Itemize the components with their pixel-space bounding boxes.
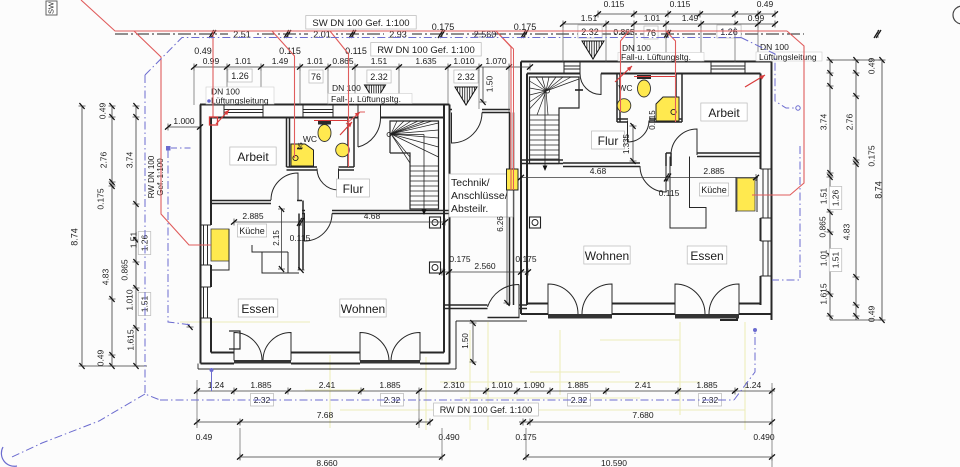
stair right unit winder treads [530,77,580,159]
technik bottom wall [444,304,488,306]
svg-text:4.83: 4.83 [841,223,851,240]
boxed 2.32 dims on bottom line [250,394,273,407]
svg-text:76: 76 [311,72,321,82]
left unit west wall window 2 [201,286,212,288]
red drop to technik shaft (double) [496,31,511,190]
right dim column middle [855,60,857,320]
blue RW left downpipe [145,75,160,400]
yellow highlight: right kitchen radiator [737,178,755,211]
right Flur bottom wall [521,159,563,161]
right unit french door arcs 2 [675,284,705,314]
left dim bottom connector [82,365,147,367]
svg-text:Lüftungsleitung: Lüftungsleitung [759,52,817,62]
svg-text:8.74: 8.74 [873,181,883,199]
right unit SE corner step [720,314,737,320]
svg-text:2.76: 2.76 [844,113,854,130]
red drop to left WC shower [272,31,295,158]
boxed dims right chain [578,25,602,38]
wall WC bottom [287,166,318,168]
room label Arbeit right [701,103,747,121]
svg-text:0.865: 0.865 [613,27,635,37]
svg-text:3.74: 3.74 [124,151,134,168]
svg-text:0.865: 0.865 [332,56,354,66]
stair right unit outline [530,77,580,164]
bottom extension verticals [196,380,198,428]
hatch triangle right [582,41,604,59]
blue corner arc bottom-left [1,447,17,466]
svg-text:76: 76 [646,28,656,38]
svg-text:Fall-u. Lüftungsltg.: Fall-u. Lüftungsltg. [331,94,401,104]
left unit west wall inner segments [210,118,212,226]
svg-text:0.175: 0.175 [449,254,471,264]
svg-text:1.090: 1.090 [523,380,545,390]
blue RW inner left line [168,150,192,325]
svg-text:SW DN 100 Gef. 1:100: SW DN 100 Gef. 1:100 [312,18,409,29]
right unit upper mini chain [598,13,775,15]
red SW pipe down left side [134,31,211,245]
svg-text:2.885: 2.885 [703,166,725,176]
right WC corner shower [656,97,679,121]
dim 6.26 technik rotated [506,190,508,305]
stair right handrail mark [575,89,583,91]
svg-text:2.15: 2.15 [272,230,281,246]
svg-text:7.680: 7.680 [632,410,654,420]
svg-text:1.635: 1.635 [415,56,437,66]
stair right unit direction arrow [546,89,550,93]
SW line double ticks [211,30,216,38]
svg-text:0.49: 0.49 [196,432,213,442]
RW label box left [371,43,481,57]
svg-text:1.50: 1.50 [484,75,494,92]
hatch triangle left 2 [455,87,477,105]
svg-text:0.49: 0.49 [95,349,105,366]
svg-text:0.490: 0.490 [438,432,460,442]
right unit entrance door [580,74,601,95]
right kitchen radiator border [735,177,737,212]
bottom dim row C overall [240,456,442,458]
terrace edge line below left unit [198,368,456,370]
right unit french door arcs 1 [548,284,578,314]
SW sewer line (black dashed) [115,33,804,35]
svg-text:4.68: 4.68 [590,166,607,176]
svg-text:2.885: 2.885 [242,211,264,221]
wall below right Arbeit [666,152,671,154]
dim 2.885 left kitchen [234,221,302,223]
right dim column inner [829,60,831,320]
dim 2.15 left kitchen wall [281,208,283,270]
dim 1.50 terrace step rotated [472,321,474,364]
room label Kueche right [699,183,728,196]
left unit top wall window 2 [302,105,304,118]
svg-text:4.83: 4.83 [100,268,110,285]
left kitchen counter L [262,252,299,273]
left unit exterior wall - top inner segments [211,117,358,119]
right WC wall right (installation) [675,74,677,123]
red drop to left WC fall pipe [330,31,349,167]
svg-text:1.01: 1.01 [235,56,252,66]
reference circle top-right edge [953,6,960,24]
svg-text:1.50: 1.50 [461,333,470,349]
outlet box left unit east wall lower [430,262,441,273]
left unit east wall [443,105,445,353]
right unit east wall window 1 [761,168,772,170]
dim 1.000 top left [168,126,200,128]
svg-text:Absteilr.: Absteilr. [451,203,488,215]
door WC left unit [317,169,339,191]
right unit bottom wall outer segments [521,313,548,315]
bottom dim row B left 7.68 [197,421,430,423]
svg-text:1.51: 1.51 [818,187,828,204]
svg-text:Flur: Flur [343,182,364,196]
svg-text:1.51: 1.51 [371,56,388,66]
svg-text:0.115: 0.115 [604,0,625,9]
dim 2.885 right kitchen [666,177,758,179]
left WC shower tray [291,144,314,166]
svg-text:Essen: Essen [690,249,723,263]
blue RW right corner down [741,38,795,109]
DN100 lueftungsleitung label left [206,87,274,104]
dim 4.68 right flur [521,177,666,179]
svg-text:DN 100: DN 100 [332,83,361,93]
stair left unit direction arrow [387,133,391,137]
svg-text:8.660: 8.660 [316,458,338,467]
right unit west wall [520,62,522,315]
svg-text:1.01: 1.01 [644,13,661,23]
SW line label SW DN 100 [306,16,416,30]
svg-text:WC: WC [303,134,317,144]
svg-text:Fall-u. Lüftungsltg.: Fall-u. Lüftungsltg. [621,52,691,62]
right WC door [628,121,650,143]
right kitchen counter L [670,157,706,229]
svg-text:2.76: 2.76 [98,151,108,168]
svg-text:2.32: 2.32 [370,72,388,82]
svg-text:0.490: 0.490 [753,432,775,442]
svg-text:1.615: 1.615 [818,283,828,305]
room label Technik [449,174,513,217]
svg-text:0.49: 0.49 [757,0,774,9]
right unit east wall inner segments [760,74,762,170]
left dim column middle [111,106,113,366]
svg-text:1.01: 1.01 [307,56,324,66]
svg-text:Lüftungsleitung: Lüftungsleitung [211,96,269,106]
svg-text:Arbeit: Arbeit [237,150,269,164]
wall below Arbeit [211,200,271,202]
right unit top wall inner segments [527,73,580,75]
wall kitchen/living left unit [298,214,300,271]
left unit top dimension chain [194,66,530,68]
left WC toilet bowl [318,125,331,142]
svg-text:3.74: 3.74 [818,113,828,130]
left unit exterior wall - top outer [200,104,450,106]
svg-text:1.010: 1.010 [124,289,134,311]
room label Essen right [687,246,727,264]
svg-text:1.51: 1.51 [128,231,138,248]
svg-text:Küche: Küche [701,185,727,195]
dim 4.68 left flur [302,221,445,223]
left unit top wall window 1 [223,105,225,118]
svg-text:1.49: 1.49 [682,13,699,23]
blue bottom main line [160,399,734,401]
room label Arbeit left [230,147,276,165]
svg-text:1.49: 1.49 [272,56,289,66]
svg-text:0.115: 0.115 [290,233,311,243]
red elbow to left kitchen radiator [189,244,211,246]
left unit french door arcs 2 [360,333,389,361]
right WC toilet tank [637,75,651,79]
technik south door [488,284,520,317]
blue property line to bottom-left corner [12,394,145,457]
right unit top wall window 2 [710,62,712,74]
porch dim 1.50 left [482,67,484,102]
svg-text:1.885: 1.885 [696,380,718,390]
red right side down to kitchen radiator [752,31,804,195]
svg-text:1.26: 1.26 [231,71,249,81]
vertical ext lines right top [562,27,564,62]
RW label box bottom [434,403,539,416]
left unit bottom wall outer segments [201,363,235,365]
right unit top wall window 1 [563,62,565,74]
blue RW main line top [145,38,741,76]
svg-text:Arbeit: Arbeit [708,106,740,120]
left WC toilet tank [318,121,331,125]
svg-text:0.115: 0.115 [659,188,680,198]
svg-text:0.99: 0.99 [203,56,220,66]
yellow highlight: left kitchen radiator [211,229,229,261]
left unit west wall outer [200,105,202,364]
svg-text:8.74: 8.74 [69,228,79,246]
svg-text:Küche: Küche [239,226,265,236]
door Flur to Wohnen left unit [305,214,333,242]
svg-text:0.175: 0.175 [95,188,105,210]
svg-text:RW DN 100: RW DN 100 [147,155,156,198]
svg-text:Wohnen: Wohnen [341,302,385,316]
door right Arbeit [671,129,697,155]
terrace step outside technik [455,321,457,369]
wall WC right (installation wall) [347,118,349,168]
SW label box top-left rotated [46,1,57,15]
right unit east wall outer [771,62,773,321]
right unit top dimension chain [563,23,775,25]
red SW pipe main top run [81,0,787,31]
svg-text:10.590: 10.590 [601,458,627,467]
room label Flur left [337,179,370,197]
wall Arbeit/WC [286,118,288,168]
room label Essen left [238,299,278,317]
svg-text:1.615: 1.615 [125,329,135,351]
left unit entrance opening jambs [357,105,359,118]
blue bottom right riser [734,331,755,400]
blue connection dot left french door [210,368,214,372]
vertical ext lines from top chain [193,70,195,105]
left dim column inner [135,106,137,366]
svg-text:0.865: 0.865 [119,259,129,281]
right WC wall left [616,74,618,123]
svg-text:DN 100: DN 100 [760,42,789,52]
svg-text:1.26: 1.26 [139,234,149,251]
room label Flur right [592,131,625,149]
red drop to right WC fall pipe [666,31,676,122]
right unit french door sill 2 [675,314,739,319]
svg-text:2.41: 2.41 [635,380,652,390]
svg-text:Flur: Flur [598,134,619,148]
door right Flur to Wohnen [640,166,666,192]
left WC wash basin [336,143,350,157]
left unit french door arcs 1 [234,333,262,361]
svg-text:2.32: 2.32 [457,72,475,82]
door left unit entrance arc [358,118,381,148]
boxed dims below top chain [228,69,252,82]
svg-text:2.32: 2.32 [581,27,599,37]
svg-text:1.010: 1.010 [453,56,475,66]
yellow highlight: technik shaft [507,169,519,190]
right WC wash basin [617,99,631,113]
svg-text:SW: SW [46,1,55,14]
svg-text:0.865: 0.865 [817,216,827,238]
svg-text:0.49: 0.49 [194,46,212,56]
svg-text:7.68: 7.68 [317,410,334,420]
dim 1.335 right flur rotated [632,124,634,163]
left unit bottom wall inner segments [211,352,234,354]
svg-text:1.070: 1.070 [485,56,507,66]
right unit exterior wall - top outer [521,61,772,63]
svg-text:1.51: 1.51 [581,13,598,23]
room label Wohnen right [584,246,630,264]
svg-text:1.335: 1.335 [622,133,631,154]
svg-text:1.51: 1.51 [139,295,149,312]
wall Flur bottom / kitchen top [302,210,305,212]
technik entrance door arc [452,113,483,144]
svg-text:6.26: 6.26 [496,216,505,232]
left unit french door sill 2 [360,360,420,364]
svg-text:Essen: Essen [241,302,274,316]
door Arbeit [271,173,298,200]
outlet box left unit east wall upper [430,217,441,228]
stair left unit winder treads [391,121,439,205]
svg-text:2.41: 2.41 [319,380,336,390]
left kitchen counter along west wall [211,229,229,270]
left wall small tick [187,326,194,328]
right unit bottom wall inner segments [527,303,548,305]
svg-text:4.68: 4.68 [364,211,381,221]
svg-text:0.175: 0.175 [515,254,537,264]
outlet box right unit west wall [530,217,541,228]
svg-text:RW DN 100 Gef. 1:100: RW DN 100 Gef. 1:100 [377,45,475,56]
bottom dim row B right 7.680 [519,421,772,423]
right dim column outer 8.74 [881,60,883,320]
svg-text:2.560: 2.560 [474,261,496,271]
svg-text:95: 95 [298,142,305,150]
svg-text:Technik/: Technik/ [451,177,490,189]
svg-text:1.51: 1.51 [830,251,840,268]
svg-text:1.24: 1.24 [208,380,225,390]
left dim column 8.74 [81,106,83,366]
bottom dim row A [197,390,775,392]
blue RW east downpipe [772,146,800,280]
right unit french door sill 1 [548,314,612,319]
left boxed struck dims on blue line [138,231,151,254]
svg-text:RW DN 100 Gef. 1:100: RW DN 100 Gef. 1:100 [440,405,532,415]
svg-text:1.01: 1.01 [818,249,828,266]
right dim top connector [830,59,882,61]
svg-text:1.885: 1.885 [250,380,272,390]
svg-text:1.885: 1.885 [567,380,589,390]
svg-text:0.115: 0.115 [648,110,657,130]
technik shaft wall [509,113,511,306]
svg-text:1.000: 1.000 [173,116,195,126]
right WC bottom wall [617,118,628,120]
svg-text:0.49: 0.49 [97,102,107,119]
svg-text:0.99: 0.99 [748,13,765,23]
svg-text:0.175: 0.175 [866,145,876,167]
right unit 2.560 dim over porch [442,271,528,273]
svg-text:1.885: 1.885 [379,380,401,390]
right boxed struck dims [829,186,842,209]
left unit chimney block [229,331,240,349]
room label Kueche left [237,224,266,237]
svg-text:1.24: 1.24 [745,380,762,390]
red drop to left unit west radiator marker [212,31,214,118]
left unit french door sill 1 [234,360,291,364]
svg-text:Anschlüsse/: Anschlüsse/ [451,190,508,202]
svg-text:1.26: 1.26 [830,189,840,206]
stair left unit outline [390,121,439,209]
room label Wohnen left [340,299,386,317]
terrace hatch lines (faint yellow) [180,322,745,430]
svg-text:1.010: 1.010 [491,380,513,390]
svg-text:Wohnen: Wohnen [585,249,629,263]
right WC toilet bowl [638,80,651,97]
red drop to right WC basin [621,31,630,112]
svg-text:2.310: 2.310 [443,380,465,390]
left unit west wall window 1 [201,224,212,226]
right unit east wall window 2 [761,240,772,242]
SW line segment labels [228,30,256,39]
hatch triangle left 1 [365,85,386,102]
technik top wall [450,109,453,111]
svg-text:0.115: 0.115 [670,0,691,9]
